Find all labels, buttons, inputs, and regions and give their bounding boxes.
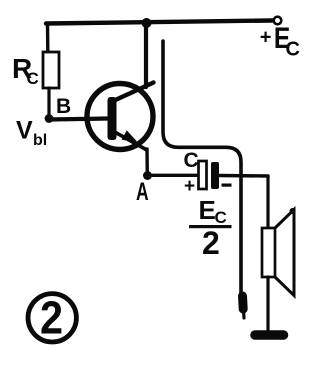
resistor RC <box>43 52 59 88</box>
node top junction <box>142 18 152 28</box>
capacitor C right plate <box>211 162 219 189</box>
svg-text:+: + <box>184 176 195 197</box>
svg-text:bl: bl <box>33 132 47 149</box>
wire down to speaker <box>266 176 269 228</box>
transistor Q1 collector lead <box>111 83 154 103</box>
label Ec/2 bar <box>189 225 232 228</box>
ground <box>255 330 284 340</box>
transistor Q1 circle <box>87 84 153 150</box>
svg-text:B: B <box>56 95 71 118</box>
svg-text:V: V <box>16 117 33 145</box>
wire node A to capacitor <box>152 174 198 177</box>
wire capacitor to speaker corner <box>219 174 268 178</box>
svg-text:C: C <box>286 39 300 61</box>
speaker LS1 cone <box>275 210 294 296</box>
transistor Q1 emitter lead <box>112 131 146 150</box>
wire left drop to resistor <box>46 24 50 53</box>
svg-text:+: + <box>260 27 272 49</box>
wire top rail <box>46 21 272 24</box>
svg-text:2: 2 <box>40 293 63 345</box>
speaker LS1 body <box>262 228 275 277</box>
node A <box>143 171 152 180</box>
probe plug tip <box>238 296 248 309</box>
transistor Q1 emitter arrow <box>122 130 138 142</box>
wire probe lead <box>163 41 241 293</box>
wire resistor to node B <box>47 88 50 118</box>
speaker LS1 cone corner blob <box>290 208 296 214</box>
wire speaker to ground <box>266 277 269 331</box>
svg-text:C: C <box>27 69 39 88</box>
wire collector drop <box>144 23 148 87</box>
svg-text:C: C <box>184 149 199 172</box>
svg-text:A: A <box>136 177 149 206</box>
node B <box>45 114 54 123</box>
terminal +Ec <box>274 17 282 25</box>
frame circle figure number 2 <box>28 294 76 342</box>
wire base <box>49 119 108 120</box>
label minus capacitor <box>222 184 232 187</box>
transistor Q1 base bar <box>108 97 117 140</box>
capacitor C left plate <box>199 161 207 189</box>
wire emitter to node A <box>145 149 149 175</box>
svg-text:2: 2 <box>202 225 220 261</box>
svg-text:E: E <box>199 195 216 225</box>
